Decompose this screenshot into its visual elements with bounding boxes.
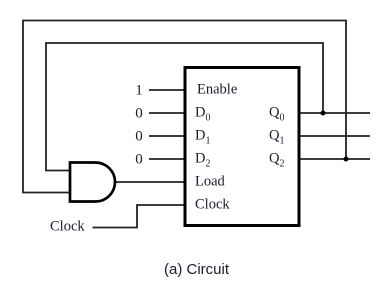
wire Clock net bbox=[93, 205, 186, 228]
svg-text:0: 0 bbox=[135, 152, 143, 168]
svg-text:Load: Load bbox=[195, 174, 226, 190]
svg-text:Enable: Enable bbox=[197, 82, 237, 98]
wire Q2 output bbox=[299, 158, 370, 160]
wire D0 input stub bbox=[149, 112, 185, 114]
junction dot on Q2 line bbox=[344, 157, 349, 162]
wire Enable input stub bbox=[149, 89, 185, 91]
wire D2 input stub bbox=[149, 158, 185, 160]
wire outer feedback loop Q2 to AND input B bbox=[23, 21, 346, 193]
wire Q1 output bbox=[299, 135, 370, 137]
svg-text:Clock: Clock bbox=[50, 219, 85, 235]
register U1 bbox=[185, 68, 299, 226]
junction dot on Q0 line bbox=[321, 111, 326, 116]
svg-text:(a) Circuit: (a) Circuit bbox=[164, 261, 230, 278]
wire D1 input stub bbox=[149, 135, 185, 137]
svg-text:0: 0 bbox=[135, 129, 143, 145]
svg-text:1: 1 bbox=[135, 83, 143, 99]
svg-text:0: 0 bbox=[135, 106, 143, 122]
svg-text:Clock: Clock bbox=[195, 197, 230, 213]
wire inner feedback loop Q0 to AND input A bbox=[46, 43, 323, 171]
wire AND output to Load bbox=[115, 181, 185, 183]
and gate G1 bbox=[70, 163, 115, 202]
wire Q0 output bbox=[299, 112, 370, 114]
